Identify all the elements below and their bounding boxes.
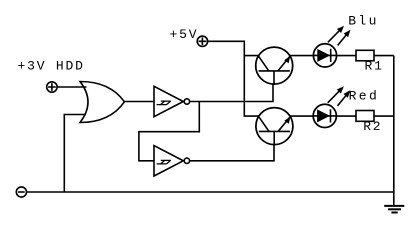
wire Q1 emitter to LED1 xyxy=(290,55,314,57)
terminal +3V xyxy=(47,82,57,92)
wire inverter1 output to Q1 base xyxy=(190,84,273,101)
resistor R2 xyxy=(356,111,374,122)
led D2 xyxy=(313,104,336,127)
svg-text:+5V: +5V xyxy=(170,27,199,42)
wire R1 to right rail xyxy=(374,55,394,57)
wire OR bottom input xyxy=(64,115,86,193)
led D1 light arrows xyxy=(328,26,351,46)
inverter U2 (schmitt) xyxy=(154,86,190,116)
transistor Q1 xyxy=(256,47,293,84)
inverter U3 (schmitt) xyxy=(154,146,190,176)
or-gate U1 xyxy=(80,82,124,123)
svg-text:+3V HDD: +3V HDD xyxy=(18,59,85,74)
wire R2 to right rail xyxy=(374,115,394,117)
svg-text:Blu: Blu xyxy=(348,14,379,29)
terminal minus xyxy=(16,187,26,197)
led D2 light arrows xyxy=(328,86,351,106)
terminal +5V xyxy=(197,36,207,46)
svg-text:Red: Red xyxy=(349,89,380,104)
ground xyxy=(384,206,404,213)
wire feedback inv1 to inv2 xyxy=(139,102,199,161)
transistor Q2 xyxy=(256,108,293,145)
wire LED1 to R1 xyxy=(337,55,356,57)
svg-text:R1: R1 xyxy=(365,59,384,74)
wire right rail vertical xyxy=(393,56,395,206)
wire inverter2 output to Q2 base xyxy=(190,145,274,161)
resistor R1 xyxy=(356,50,374,61)
wire Q2 emitter to LED2 xyxy=(290,115,313,117)
wire +3V to OR input xyxy=(57,86,86,88)
wire OR output to inverter 1 xyxy=(124,101,154,103)
svg-text:R2: R2 xyxy=(363,119,382,134)
wire +5V to collectors xyxy=(208,41,259,116)
led D1 xyxy=(313,44,336,67)
wire bottom rail xyxy=(27,191,394,193)
wire LED2 to R2 xyxy=(336,115,356,117)
